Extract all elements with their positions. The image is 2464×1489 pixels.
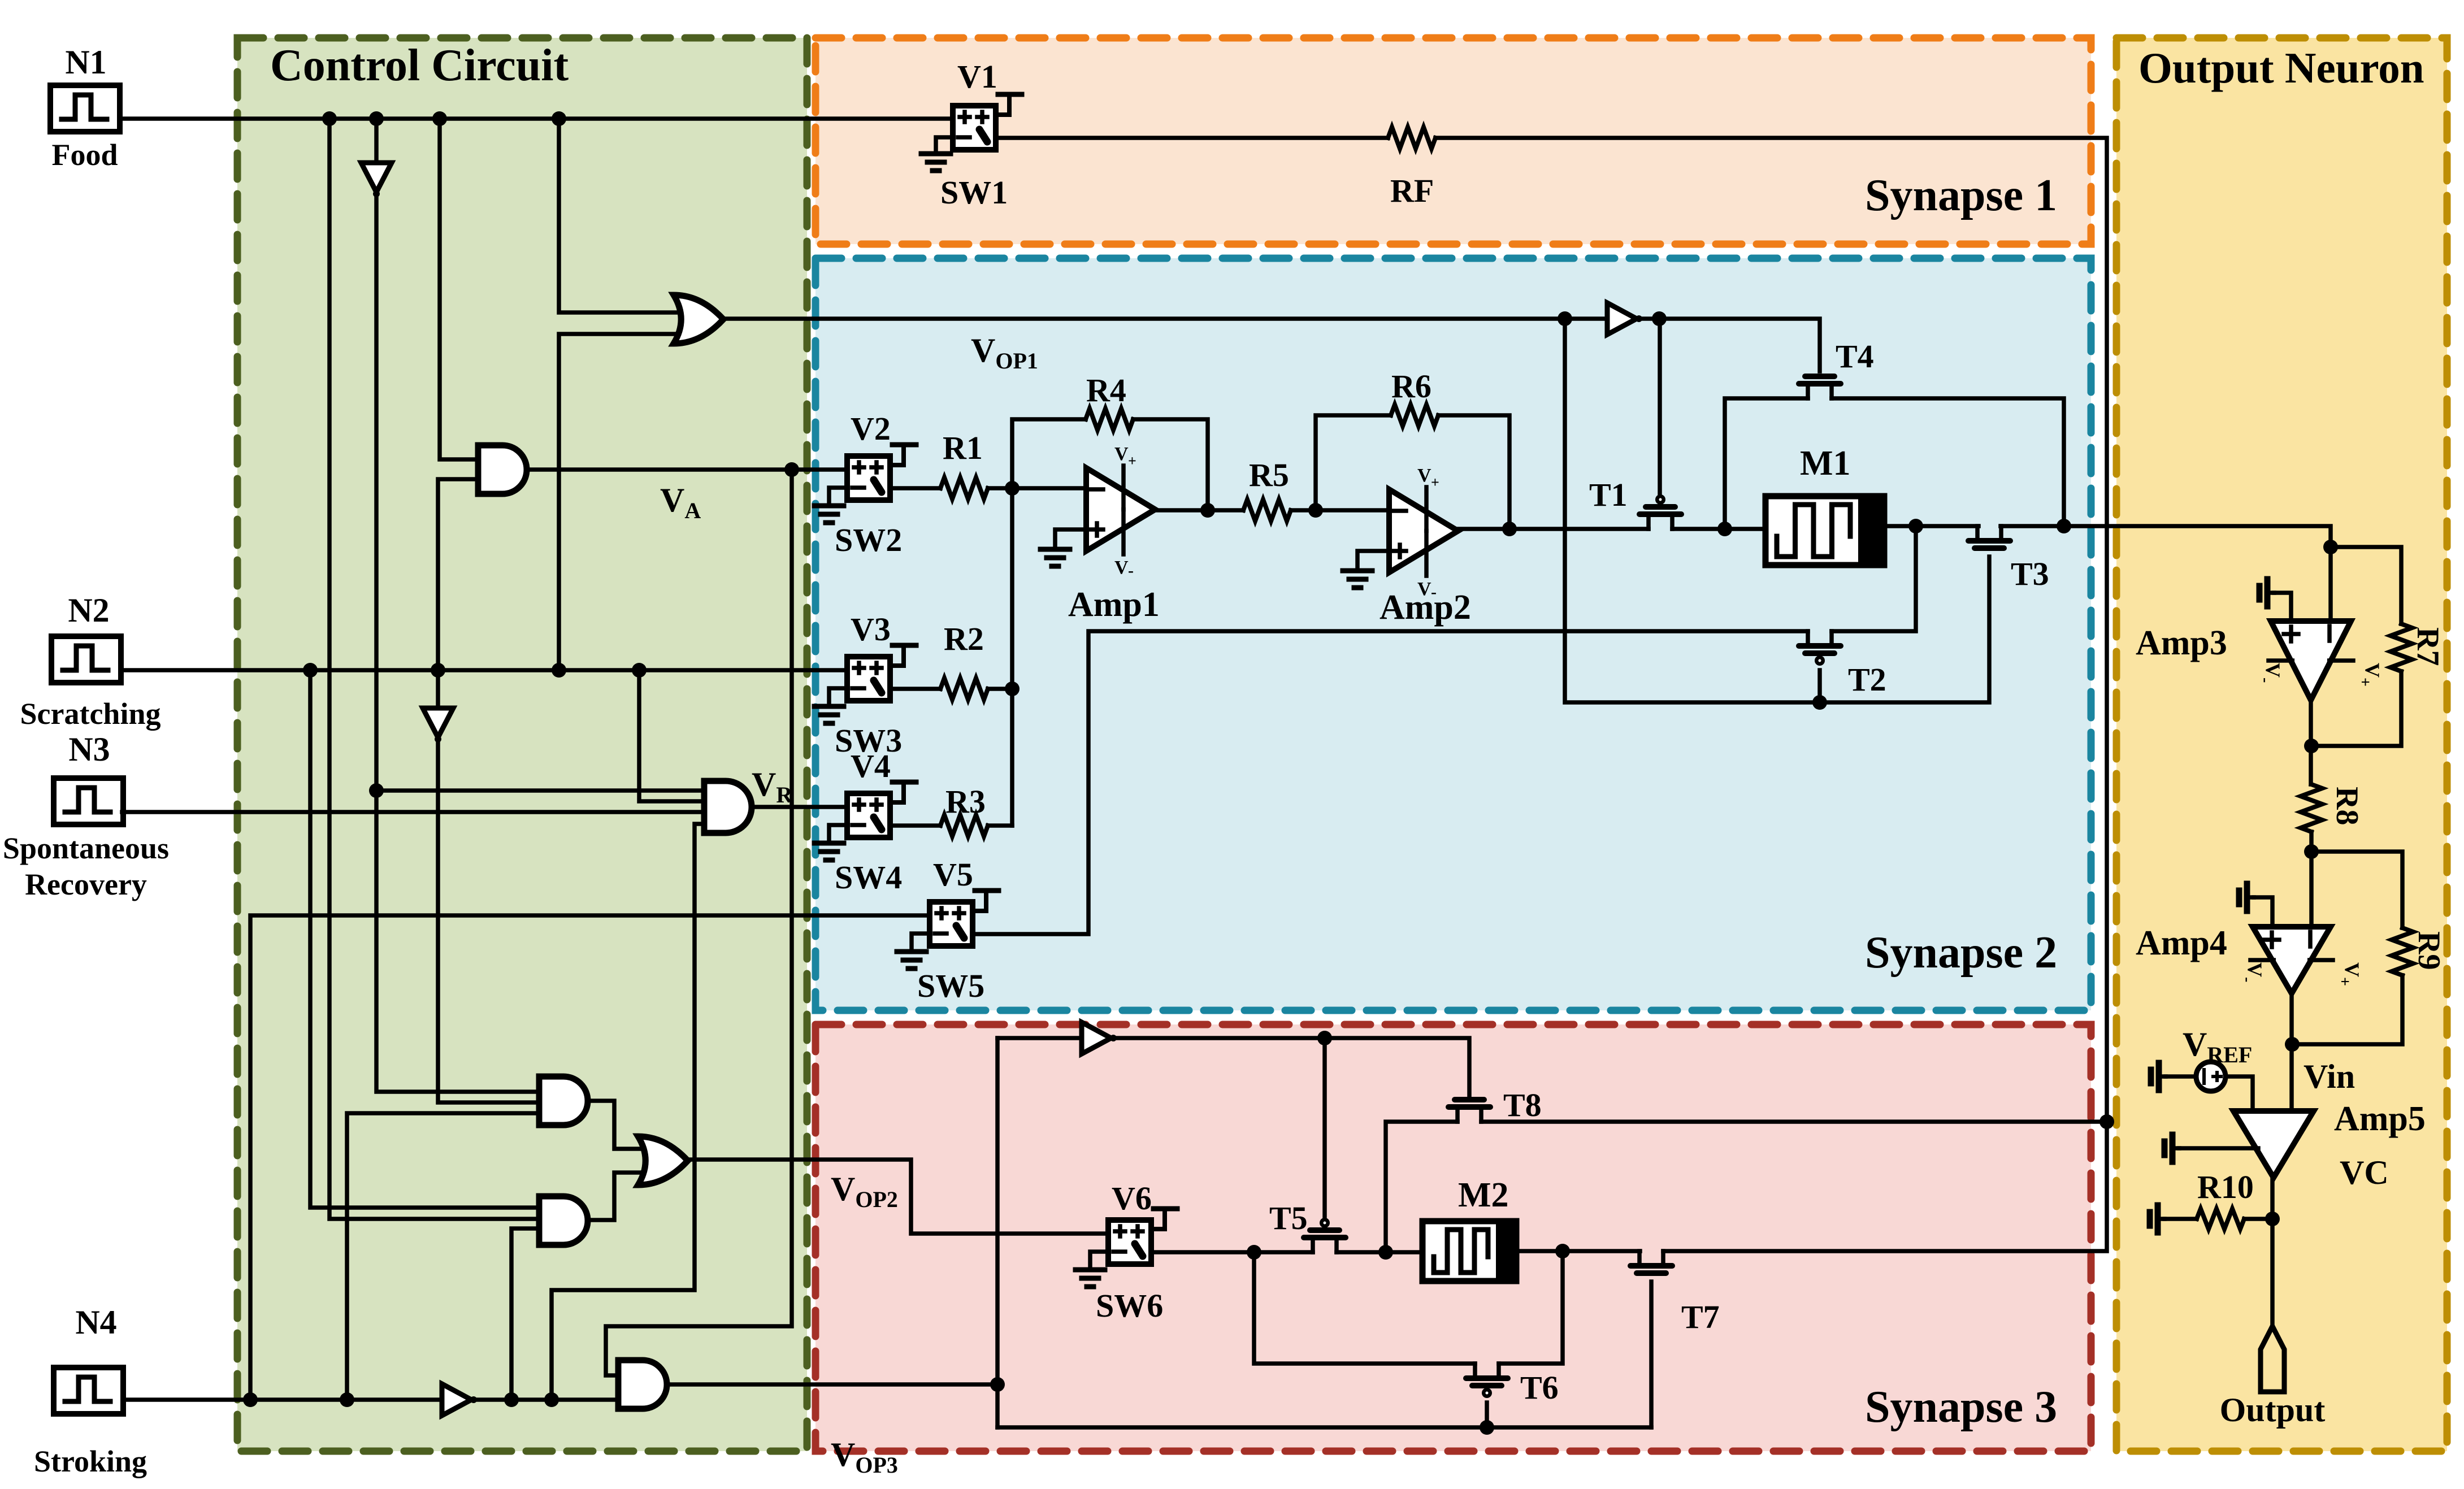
label T7: [1681, 1299, 1720, 1335]
inverter INV1 (NOT N1): [361, 163, 392, 197]
label Amp3: [2136, 624, 2227, 662]
label V4: [851, 748, 891, 784]
wire N3 row: [122, 810, 704, 814]
wire T6 gate to VOP3 row: [1485, 1403, 1489, 1427]
label R9: [2411, 931, 2446, 970]
pulse source N3: [54, 778, 123, 824]
transistor T7: [1630, 1251, 1672, 1273]
resistor R5: [1243, 500, 1291, 521]
svg-text:V: V: [1417, 465, 1431, 486]
node VA label: [660, 481, 701, 523]
wire AND-B input3 to N4: [511, 1228, 539, 1400]
wire column N2 through inverter2: [436, 670, 440, 708]
wire R1 to Amp1 inverting input: [988, 481, 1086, 496]
mini ground for VREF: [2151, 1063, 2166, 1090]
svg-text:Synapse 1: Synapse 1: [1865, 171, 2057, 220]
input neuron N2 label: [68, 592, 109, 629]
label T2: [1848, 661, 1886, 698]
wire VOP3 node column: [990, 1038, 1005, 1427]
svg-text:M1: M1: [1800, 444, 1851, 483]
mini ground for Amp4: [2239, 884, 2254, 911]
node VOP2 label: [831, 1170, 898, 1212]
label T1: [1589, 476, 1628, 513]
wire OR1 input2 to N2: [559, 334, 692, 670]
svg-text:R3: R3: [945, 783, 986, 820]
wire Amp3 inverting input: [2323, 540, 2338, 621]
svg-text:V6: V6: [1112, 1180, 1152, 1217]
wire T6 rail from V6 node: [1254, 1252, 1475, 1364]
wire AND-VA input2 to N2: [438, 479, 478, 670]
wire VOP1 row: [724, 311, 1607, 326]
svg-text:Control Circuit: Control Circuit: [270, 41, 569, 90]
mini ground for R10: [2150, 1205, 2164, 1232]
switch source V4/SW4: [847, 782, 916, 837]
switch source V2/SW2: [847, 445, 916, 500]
wire AND-B output to OR2: [587, 1173, 657, 1220]
label Amp5: [2334, 1100, 2426, 1138]
wire VOP2 to V6: [686, 1160, 1108, 1234]
wire column N1 through inverter1: [374, 119, 379, 163]
output probe symbol: [2261, 1326, 2284, 1392]
label SW3: [835, 722, 902, 759]
wire Amp4 noninverting to ground: [2254, 897, 2272, 927]
label SW2: [835, 522, 902, 558]
resistor R8: [2301, 784, 2322, 832]
transistor T8: [1448, 1100, 1490, 1122]
buffer B2 on VOP1: [1607, 303, 1642, 335]
svg-text:V1: V1: [957, 58, 997, 95]
wire column N1 to OR1 input1: [559, 119, 692, 312]
buffer B3 on VOP3: [1082, 1022, 1117, 1054]
svg-text:-: -: [1128, 561, 1134, 580]
source VREF: [2196, 1062, 2226, 1091]
wire VREF to Amp5: [2226, 1076, 2253, 1111]
AND gate G3 (VR 4-input): [704, 781, 752, 833]
AND gate G4 (AND-A): [539, 1076, 588, 1125]
label SW5: [917, 967, 984, 1004]
label VREF: [2183, 1026, 2252, 1067]
resistor R2: [940, 678, 988, 700]
wire VOP1 to T4 gate: [1639, 311, 1820, 371]
wire RF to output column: [1435, 138, 2107, 1122]
svg-text:Synapse 3: Synapse 3: [1865, 1382, 2057, 1432]
transistor T6: [1466, 1364, 1508, 1398]
wire M1 to T3: [1884, 519, 1979, 533]
label R6: [1391, 368, 1431, 405]
label R2: [944, 620, 984, 657]
switch source V1/SW1: [953, 94, 1022, 150]
AND gate G1 (VA = N1·N2): [478, 445, 527, 494]
wire VA column to AND-C input1: [606, 470, 792, 1375]
label T3: [2011, 555, 2049, 592]
wire T1 gate column: [1658, 319, 1662, 494]
svg-text:SW6: SW6: [1096, 1287, 1163, 1324]
resistor R3: [940, 815, 988, 836]
svg-text:N2: N2: [68, 592, 109, 629]
wire inverter1 output column: [369, 195, 539, 1092]
output neuron region box: [2116, 38, 2447, 1451]
transistor T5: [1304, 1218, 1346, 1252]
label SW6: [1096, 1287, 1163, 1324]
buffer B1 on N4 row: [442, 1384, 477, 1416]
wire T4 right to M1 output node: [1832, 398, 2064, 526]
svg-text:R8: R8: [2329, 787, 2365, 825]
wire V4 to R3: [890, 823, 940, 828]
wire T5 gate column: [1322, 1038, 1327, 1216]
resistor R9 feedback: [2293, 852, 2413, 1044]
label R1: [943, 429, 983, 466]
svg-text:T8: T8: [1503, 1087, 1542, 1123]
ground for Amp2 +input: [1343, 551, 1389, 588]
wire T2 gate to gate rail: [1817, 670, 1822, 702]
switch source V6/SW6: [1108, 1209, 1177, 1264]
ground for SW3: [814, 688, 847, 723]
wire T7 gate to VOP3 row: [1649, 1282, 1654, 1427]
ground for SW2: [814, 488, 847, 523]
label Scratching: [20, 697, 161, 731]
wire T2 source rail to V5 column: [973, 631, 1808, 934]
mini ground for Amp3: [2259, 579, 2274, 606]
transistor T4: [1799, 376, 1841, 398]
label T5: [1269, 1200, 1308, 1236]
wire R5 to Amp2: [1291, 503, 1389, 518]
wire VR input4 jog to N4: [552, 824, 704, 1400]
wire inverter2 output to AND-A input2: [438, 740, 539, 1102]
svg-text:SW4: SW4: [835, 859, 902, 896]
svg-text:V: V: [1114, 557, 1129, 578]
label R8: [2329, 787, 2365, 825]
memristor M1: [1765, 496, 1884, 565]
resistor R7 feedback: [2314, 547, 2412, 746]
svg-text:Vin: Vin: [2304, 1058, 2355, 1095]
svg-text:Output Neuron: Output Neuron: [2138, 44, 2424, 92]
svg-text:R2: R2: [944, 620, 984, 657]
AND gate G5 (AND-B): [539, 1196, 588, 1245]
label R7: [2410, 627, 2445, 666]
resistor RF: [1388, 127, 1435, 149]
synapse 2 region box: [815, 258, 2091, 1010]
svg-text:T7: T7: [1681, 1299, 1720, 1335]
svg-text:N3: N3: [68, 731, 110, 768]
svg-text:N1: N1: [65, 44, 106, 81]
pulse source N1: [50, 85, 120, 132]
wire N2 to VR input2: [639, 670, 704, 801]
svg-text:Amp3: Amp3: [2136, 624, 2227, 662]
AND gate G7 (AND-C VOP3): [618, 1360, 667, 1409]
node VOP1 label: [971, 332, 1038, 374]
pulse source N4: [54, 1368, 123, 1414]
synapse 3 region box: [815, 1024, 2091, 1451]
wire R2 to summing column: [988, 687, 1012, 691]
memristor M2: [1422, 1221, 1516, 1281]
label V5: [933, 856, 973, 893]
title Output Neuron: [2138, 44, 2424, 92]
wire N1 row: [120, 111, 953, 126]
input neuron N3 label: [68, 731, 110, 768]
wire V2 to R1: [890, 486, 940, 490]
wire T2 drain to M1 output node: [1832, 526, 1916, 631]
svg-text:V2: V2: [851, 410, 891, 447]
wire R10 ground link: [2164, 1217, 2197, 1221]
input neuron N4 label: [75, 1304, 116, 1341]
label Spontaneous Recovery: [3, 831, 169, 901]
svg-text:R6: R6: [1391, 368, 1431, 405]
svg-text:V3: V3: [851, 611, 891, 648]
wire R10 to output node: [2244, 1217, 2272, 1221]
svg-text:Spontaneous: Spontaneous: [3, 831, 169, 865]
svg-text:R7: R7: [2410, 627, 2445, 666]
svg-text:SW2: SW2: [835, 522, 902, 558]
wire VOP3 from AND-C: [667, 1382, 997, 1387]
OR gate G2 (VOP1 = N1+N2): [674, 295, 723, 344]
svg-text:T4: T4: [1836, 338, 1874, 375]
svg-text:Amp4: Amp4: [2136, 924, 2227, 962]
label R10: [2197, 1169, 2254, 1205]
svg-text:V4: V4: [851, 748, 891, 784]
label V1: [957, 58, 997, 95]
svg-text:Synapse 2: Synapse 2: [1865, 928, 2057, 978]
OR gate G6 (VOP2): [638, 1136, 688, 1185]
wire Amp5 output: [2265, 1179, 2280, 1325]
label SW4: [835, 859, 902, 896]
svg-text:N4: N4: [75, 1304, 116, 1341]
label Amp1: [1068, 585, 1160, 624]
label Synapse 3: [1865, 1382, 2057, 1432]
resistor R10: [2197, 1209, 2244, 1229]
wire Amp1 output rail: [1155, 503, 1243, 518]
label R3: [945, 783, 986, 820]
label Synapse 2: [1865, 928, 2057, 978]
node Vin label: [2304, 1058, 2355, 1095]
label SW1: [940, 174, 1008, 211]
wire VOP1 column to gate rail: [1565, 319, 1989, 710]
transistor T3: [1968, 526, 2010, 548]
label Stroking: [34, 1444, 147, 1478]
svg-text:Food: Food: [51, 138, 118, 172]
wire N4 row after buffer: [472, 1392, 618, 1407]
svg-text:T6: T6: [1520, 1369, 1559, 1406]
wire T1 to M1: [1672, 522, 1765, 536]
label Food: [51, 138, 118, 172]
label Amp2: [1380, 588, 1471, 627]
wire Amp3 noninverting to ground: [2274, 593, 2291, 621]
wire N4 row: [123, 1392, 440, 1407]
label R5: [1249, 457, 1289, 493]
label VC: [2340, 1154, 2389, 1191]
svg-text:VC: VC: [2340, 1154, 2389, 1191]
resistor R4 feedback: [1012, 409, 1208, 510]
wire column N1 to AND-B input2: [329, 119, 539, 1219]
op-amp Amp2: [1389, 465, 1458, 601]
label Synapse 1: [1865, 171, 2057, 220]
svg-text:R9: R9: [2411, 931, 2446, 970]
label M1: [1800, 444, 1851, 483]
wire summing column R1-R2-R3: [1005, 488, 1020, 826]
svg-text:T5: T5: [1269, 1200, 1308, 1236]
wire T7 drain to RF column: [1663, 1122, 2107, 1251]
control circuit region box: [237, 38, 807, 1451]
svg-text:R4: R4: [1086, 372, 1126, 409]
label T4: [1836, 338, 1874, 375]
svg-text:Scratching: Scratching: [20, 697, 161, 731]
label R4: [1086, 372, 1126, 409]
wire R3 to summing column: [988, 823, 1012, 828]
wire V1 output to RF: [996, 136, 1388, 140]
wire T5 to M2: [1337, 1245, 1422, 1260]
wire VC input: [2179, 1146, 2258, 1151]
op-amp Amp1: [1086, 444, 1155, 580]
transistor T2: [1799, 631, 1841, 666]
switch source V5/SW5: [930, 891, 999, 946]
wire VR to V4: [752, 805, 848, 809]
wire VREF ground link: [2166, 1074, 2196, 1079]
wire V3 to R2: [890, 687, 940, 691]
wire T8 source to M2 left node: [1386, 1122, 1457, 1252]
ground for SW4: [814, 825, 847, 860]
svg-text:R5: R5: [1249, 457, 1289, 493]
wire V6 to T5: [1151, 1245, 1313, 1260]
wire T3 to Amp3: [2001, 519, 2331, 547]
label T6: [1520, 1369, 1559, 1406]
svg-text:Stroking: Stroking: [34, 1444, 147, 1478]
wire VOP3 to buffer: [997, 1036, 1082, 1040]
wire Amp4 output to Vin: [2285, 993, 2300, 1111]
node VR label: [752, 766, 793, 808]
svg-text:RF: RF: [1390, 172, 1434, 209]
wire AND-A output to OR2: [587, 1101, 657, 1149]
mini ground for Amp5 VC: [2164, 1135, 2179, 1162]
svg-text:Output: Output: [2220, 1391, 2326, 1429]
svg-text:SW5: SW5: [917, 967, 984, 1004]
wire T6 drain to M2 right node: [1499, 1251, 1563, 1364]
wire T8 drain to RF column: [1481, 1114, 2114, 1129]
svg-text:V5: V5: [933, 856, 973, 893]
op-amp Amp3: [2257, 621, 2384, 700]
wire T4 left to M1 input node: [1725, 398, 1808, 529]
svg-text:Recovery: Recovery: [25, 867, 147, 901]
label M2: [1458, 1176, 1509, 1214]
transistor T1: [1639, 494, 1681, 529]
label V6: [1112, 1180, 1152, 1217]
wire N2 row: [121, 663, 848, 678]
inverter INV2 (NOT N2): [423, 708, 453, 743]
svg-text:M2: M2: [1458, 1176, 1509, 1214]
svg-text:+: +: [1431, 474, 1439, 490]
svg-text:T3: T3: [2011, 555, 2049, 592]
switch source V3/SW3: [847, 645, 916, 701]
svg-text:Amp1: Amp1: [1068, 585, 1160, 624]
wire R8 to Amp4 inverting: [2304, 832, 2319, 927]
ground for Amp1 +input: [1040, 529, 1086, 566]
ground for SW6: [1075, 1252, 1108, 1287]
wire column N1 to AND-VA input1: [440, 119, 478, 459]
wire VOP3 row to gates: [997, 1420, 1651, 1435]
label V3: [851, 611, 891, 648]
synapse 1 region box: [815, 38, 2091, 244]
wire Amp3 output to R8: [2304, 699, 2319, 784]
svg-text:Amp2: Amp2: [1380, 588, 1471, 627]
op-amp Amp5: [2233, 1111, 2314, 1178]
wire VR input1 from inverter1: [376, 788, 704, 793]
label T8: [1503, 1087, 1542, 1123]
svg-text:+: +: [1128, 453, 1136, 469]
svg-text:T2: T2: [1848, 661, 1886, 698]
label V2: [851, 410, 891, 447]
wire buffer to T8 gate: [1113, 1031, 1469, 1099]
ground for SW5: [897, 934, 930, 969]
wire Amp2 output rail: [1458, 522, 1649, 536]
wire AND-A input3 to N4: [347, 1113, 539, 1400]
svg-text:Amp5: Amp5: [2334, 1100, 2426, 1138]
title Control Circuit: [270, 41, 569, 90]
pulse source N2: [51, 636, 121, 683]
svg-text:T1: T1: [1589, 476, 1628, 513]
svg-text:V: V: [1114, 444, 1129, 465]
ground for SW1: [921, 137, 953, 171]
op-amp Amp4: [2239, 927, 2363, 993]
label RF: [1390, 172, 1434, 209]
svg-text:R1: R1: [943, 429, 983, 466]
node VOP3 label: [831, 1436, 898, 1478]
label Amp4: [2136, 924, 2227, 962]
input neuron N1 label: [65, 44, 106, 81]
wire VA to V2: [531, 462, 847, 477]
resistor R1: [940, 477, 988, 499]
label Output: [2220, 1391, 2326, 1429]
resistor R6 feedback: [1316, 405, 1509, 529]
svg-text:SW1: SW1: [940, 174, 1008, 211]
wire M2 right rail to T7: [1516, 1244, 1640, 1258]
svg-text:R10: R10: [2197, 1169, 2254, 1205]
wire column N2 to AND-B input1: [310, 670, 539, 1208]
wire N4 to V5: [250, 915, 930, 1400]
